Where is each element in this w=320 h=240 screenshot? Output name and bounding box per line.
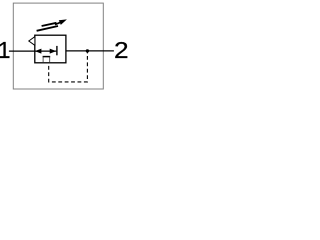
svg-text:2: 2 xyxy=(114,37,129,63)
svg-text:1: 1 xyxy=(0,37,10,63)
